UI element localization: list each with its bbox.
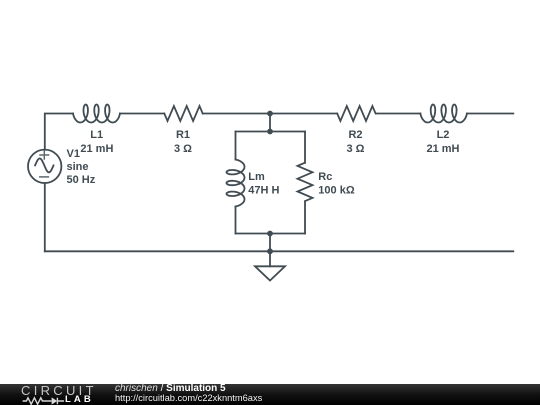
node C (bottom of parallel branch) <box>267 231 273 237</box>
wire: source bottom to bottom rail <box>44 183 46 251</box>
wire: L2 to right open end <box>467 113 513 115</box>
svg-text:V1: V1 <box>67 148 80 160</box>
wire: top-left from source to L1 <box>45 114 73 150</box>
svg-text:21 mH: 21 mH <box>80 143 113 155</box>
wire: L1 to R1 <box>120 113 164 115</box>
svg-text:Rc: Rc <box>318 171 332 183</box>
svg-text:sine: sine <box>67 161 89 173</box>
svg-text:Lm: Lm <box>248 171 265 183</box>
voltage source V1 <box>28 150 61 183</box>
CircuitLab logo <box>21 384 121 405</box>
wire: parallel branch bottom bar <box>236 233 306 235</box>
resistor Rc <box>298 163 313 201</box>
inductor Lm <box>227 160 245 207</box>
wire: R2 to L2 <box>376 113 421 115</box>
logo resistor symbol <box>23 397 48 403</box>
resistor R1 <box>164 106 202 121</box>
inductor L1 <box>73 105 120 123</box>
wire: Rc branch leads <box>304 132 306 234</box>
wire: branch bottom through bottom rail to ground <box>269 234 271 267</box>
svg-text:L2: L2 <box>437 129 450 141</box>
node D (junction on bottom rail) <box>267 248 273 254</box>
svg-text:L1: L1 <box>90 129 103 141</box>
inductor L2 <box>420 105 467 123</box>
node A (junction on top rail) <box>267 111 273 117</box>
svg-text:100 kΩ: 100 kΩ <box>318 185 355 197</box>
svg-text:47H H: 47H H <box>248 185 279 197</box>
logo diode symbol <box>48 397 64 404</box>
svg-text:3 Ω: 3 Ω <box>174 143 192 155</box>
footer title line <box>115 384 262 393</box>
resistor R2 <box>337 106 375 121</box>
svg-text:50 Hz: 50 Hz <box>67 174 96 186</box>
wire: node stub from top rail down to parallel branch <box>269 114 271 132</box>
svg-text:R1: R1 <box>176 129 190 141</box>
wire: Lm branch leads <box>235 132 237 234</box>
footer url line <box>115 394 262 403</box>
svg-text:R2: R2 <box>348 129 362 141</box>
wire: bottom rail <box>45 250 514 252</box>
wire: R1 to R2 through node A <box>203 113 338 115</box>
node B (top of parallel branch) <box>267 129 273 135</box>
svg-text:3 Ω: 3 Ω <box>347 143 365 155</box>
ground <box>255 266 285 280</box>
svg-text:21 mH: 21 mH <box>426 143 459 155</box>
wire: parallel branch top bar <box>236 131 306 133</box>
